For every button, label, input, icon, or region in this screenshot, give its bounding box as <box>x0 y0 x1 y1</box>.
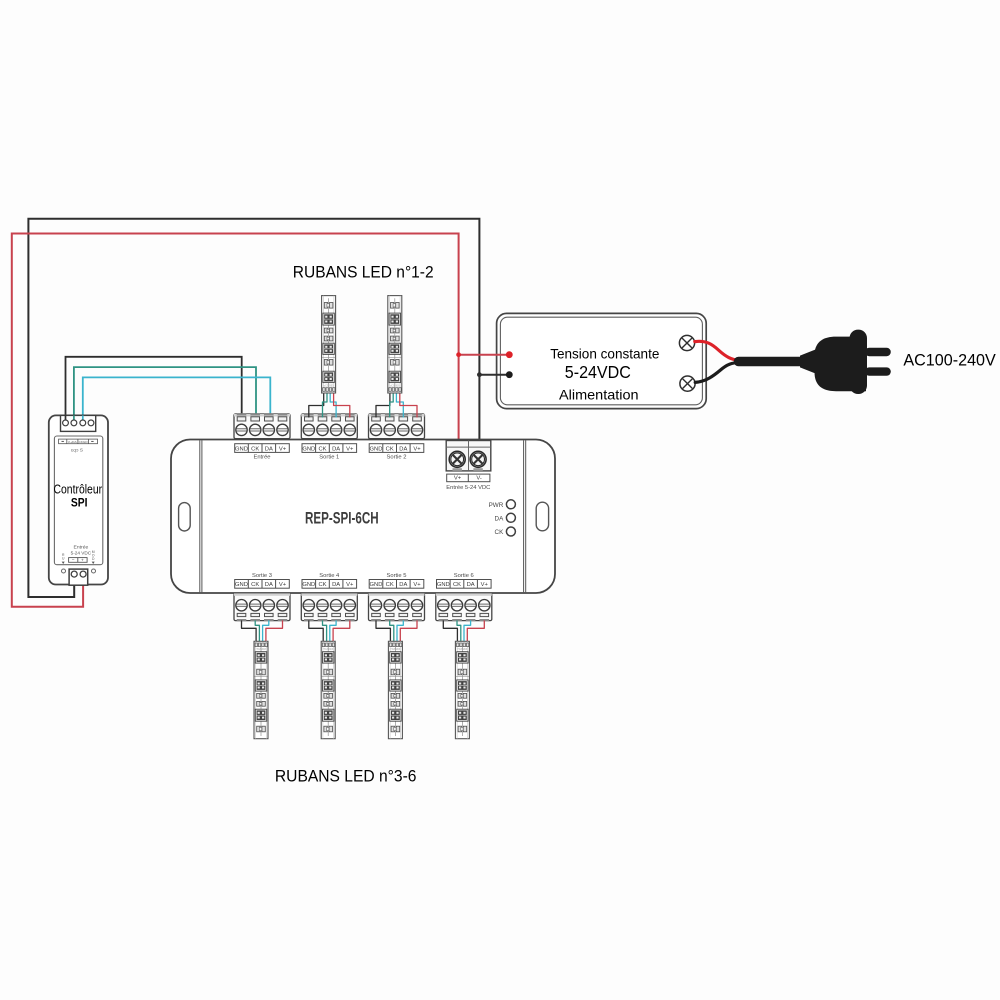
REP power labels V+ V- <box>447 474 490 482</box>
svg-text:CK: CK <box>453 582 461 588</box>
controller top terminal block <box>61 415 96 431</box>
svg-text:DA: DA <box>332 446 340 452</box>
LED strip n°4 <box>321 641 335 738</box>
screw terminal block Sortie 3 <box>234 593 290 621</box>
REP-SPI-6CH repeater body <box>171 440 555 594</box>
svg-text:CK: CK <box>495 529 505 536</box>
wires Sortie to strip (bottom) GND/CK/DA/V+ <box>376 620 390 641</box>
svg-text:ɛqɔ S: ɛqɔ S <box>71 448 83 453</box>
wires strip to Sortie (top) GND/CK/DA/V+ <box>376 393 390 418</box>
svg-text:V-: V- <box>476 476 482 482</box>
svg-text:V+: V+ <box>346 446 354 452</box>
svg-text:PWR: PWR <box>489 502 504 509</box>
svg-text:GND: GND <box>235 582 248 588</box>
svg-text:+: + <box>81 558 84 563</box>
terminal labels GND CK DA V+ (Sortie 1) <box>302 444 357 453</box>
controller MODE marker <box>92 550 95 564</box>
svg-text:V+DA: V+DA <box>68 440 77 444</box>
svg-text:−: − <box>72 558 75 563</box>
svg-text:CK: CK <box>386 446 394 452</box>
wire: V- black power loop (controller minus -> top frame -> PSU/REP V-) <box>28 219 479 597</box>
svg-text:GND: GND <box>370 582 383 588</box>
LED strip n°3 <box>254 641 268 738</box>
LED strip n°6 <box>455 641 469 738</box>
svg-text:Sortie 1: Sortie 1 <box>319 455 339 461</box>
svg-text:V+: V+ <box>279 446 287 452</box>
plug prong 2 <box>865 367 891 375</box>
svg-text:AC100-240V: AC100-240V <box>903 351 996 369</box>
screw terminal block Sortie 4 <box>301 593 357 621</box>
terminal labels GND CK DA V+ (Sortie 4) <box>302 580 357 589</box>
controller RUN marker <box>62 553 65 564</box>
wire: V- branch to PSU <box>479 374 509 376</box>
LED strip n°1 <box>322 296 336 393</box>
screw terminal block Sortie 6 <box>436 593 492 621</box>
svg-text:RUBANS LED n°3-6: RUBANS LED n°3-6 <box>275 768 417 786</box>
wire: V+ red power loop (controller plus -> top frame -> PSU/REP V+) <box>12 234 459 607</box>
PSU output screw V- <box>680 376 695 391</box>
controller input polarity box "- +" <box>69 558 88 564</box>
svg-text:DA: DA <box>467 582 475 588</box>
screw terminal block Entr&#233;e <box>234 413 290 438</box>
svg-text:V+: V+ <box>454 476 462 482</box>
plug body <box>814 337 866 392</box>
wire: CK signal (controller to Entree CK) <box>74 367 256 421</box>
svg-text:DA: DA <box>265 582 273 588</box>
svg-text:Tension constante: Tension constante <box>550 346 659 361</box>
REP status LEDs PWR DA CK <box>489 500 516 536</box>
REP power input screw terminal (Entrée 5-24 VDC) <box>446 441 491 471</box>
wire: GND signal (controller to Entree GND) <box>66 357 242 422</box>
svg-text:GND: GND <box>302 446 315 452</box>
svg-text:V+: V+ <box>413 446 421 452</box>
svg-text:V+: V+ <box>413 582 421 588</box>
svg-text:RUBANS LED n°1-2: RUBANS LED n°1-2 <box>293 263 434 281</box>
power supply (Tension constante 5-24VDC Alimentation) <box>497 313 707 408</box>
svg-text:CK: CK <box>251 582 259 588</box>
AC line wire red <box>695 341 740 360</box>
LED strip n°5 <box>388 641 402 738</box>
svg-text:V+: V+ <box>346 582 354 588</box>
wires Sortie to strip (bottom) GND/CK/DA/V+ <box>309 620 323 641</box>
terminal labels GND CK DA V+ (Sortie 6) <box>437 580 492 589</box>
svg-text:V+: V+ <box>279 582 287 588</box>
svg-text:Entrée 5-24 VDC: Entrée 5-24 VDC <box>446 485 490 491</box>
terminal labels GND CK DA V+ (Entr&#233;e) <box>235 444 290 453</box>
PSU output screw V+ <box>679 335 694 350</box>
wires strip to Sortie (top) GND/CK/DA/V+ <box>309 393 324 418</box>
REP right mounting slot <box>536 502 548 531</box>
svg-text:DA: DA <box>399 582 407 588</box>
controller bottom power terminal block <box>69 569 88 585</box>
AC power cable <box>739 357 807 367</box>
plug face <box>850 330 868 394</box>
svg-text:DA: DA <box>495 515 505 522</box>
svg-text:DA: DA <box>332 582 340 588</box>
svg-text:DA: DA <box>265 446 273 452</box>
svg-text:Sortie 4: Sortie 4 <box>319 573 340 579</box>
screw terminal block Sortie 1 <box>301 413 357 438</box>
terminal labels GND CK DA V+ (Sortie 5) <box>369 580 424 589</box>
svg-text:V+: V+ <box>481 582 489 588</box>
controller SPI (SPI LED controller box) <box>49 415 108 584</box>
wire: DA signal (controller to Entree DA) <box>83 377 270 421</box>
svg-text:GND: GND <box>370 446 383 452</box>
svg-text:Alimentation: Alimentation <box>559 388 639 403</box>
svg-text:Sortie 2: Sortie 2 <box>387 455 407 461</box>
junction: V+ node <box>456 352 461 357</box>
LED strip n°2 <box>388 296 402 393</box>
AC line wire black <box>695 362 740 382</box>
svg-text:CK: CK <box>386 582 394 588</box>
svg-text:DA: DA <box>399 446 407 452</box>
plug strain relief <box>800 349 818 375</box>
svg-text:CK: CK <box>251 446 259 452</box>
svg-text:GND: GND <box>302 582 315 588</box>
node: PSU V+ terminal dot <box>506 351 513 358</box>
controller mounting holes <box>62 569 66 573</box>
svg-text:Sortie 3: Sortie 3 <box>252 573 272 579</box>
svg-text:CK: CK <box>318 582 326 588</box>
svg-text:CK: CK <box>318 446 326 452</box>
svg-text:GND: GND <box>235 446 248 452</box>
svg-text:Sortie 6: Sortie 6 <box>454 573 474 579</box>
plug prong 1 <box>865 348 891 356</box>
junction: V- node <box>477 372 482 377</box>
screw terminal block Sortie 5 <box>369 593 425 621</box>
svg-text:REP-SPI-6CH: REP-SPI-6CH <box>305 509 379 527</box>
wires Sortie to strip (bottom) GND/CK/DA/V+ <box>443 620 457 641</box>
svg-text:Entrée: Entrée <box>253 455 270 461</box>
controller pin label strip <box>59 439 98 444</box>
svg-text:5-24VDC: 5-24VDC <box>565 362 631 382</box>
wires Sortie to strip (bottom) GND/CK/DA/V+ <box>242 620 257 641</box>
svg-text:SPI: SPI <box>71 496 88 510</box>
svg-text:Entrée: Entrée <box>74 544 89 549</box>
node: PSU V- terminal dot <box>506 371 513 378</box>
svg-text:Sortie 5: Sortie 5 <box>387 573 407 579</box>
svg-text:Contrôleur: Contrôleur <box>54 482 103 496</box>
svg-text:GND: GND <box>437 582 450 588</box>
svg-text:5-24 VDC: 5-24 VDC <box>71 550 92 555</box>
svg-text:CKGD: CKGD <box>79 440 88 444</box>
REP left mounting slot <box>179 503 191 531</box>
terminal labels GND CK DA V+ (Sortie 2) <box>369 444 424 453</box>
screw terminal block Sortie 2 <box>369 413 425 438</box>
terminal labels GND CK DA V+ (Sortie 3) <box>235 580 290 589</box>
wire: V+ branch to PSU <box>459 354 510 356</box>
